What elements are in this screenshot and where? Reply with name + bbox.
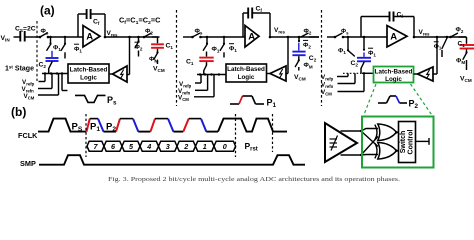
- svg-text:SMP: SMP: [20, 159, 36, 168]
- svg-text:2: 2: [183, 142, 188, 151]
- svg-text:Latch-Based: Latch-Based: [227, 66, 265, 73]
- svg-text:A: A: [248, 32, 255, 43]
- svg-text:Control: Control: [407, 130, 414, 155]
- svg-text:Switch: Switch: [400, 131, 407, 154]
- svg-text:(b): (b): [11, 105, 26, 119]
- svg-text:FCLK: FCLK: [18, 131, 38, 140]
- svg-text:1: 1: [203, 142, 207, 151]
- svg-text:4: 4: [146, 142, 151, 151]
- svg-text:3: 3: [166, 142, 170, 151]
- svg-text:A: A: [86, 32, 93, 43]
- svg-text:Latch-Based: Latch-Based: [375, 68, 413, 75]
- svg-text:Latch-Based: Latch-Based: [70, 66, 108, 73]
- svg-text:(a): (a): [40, 4, 55, 18]
- svg-text:Fig. 3. Proposed 2 bit/cycle m: Fig. 3. Proposed 2 bit/cycle multi-cycle…: [108, 176, 401, 183]
- svg-text:Logic: Logic: [385, 76, 402, 83]
- svg-text:CS=2C: CS=2C: [15, 26, 36, 34]
- svg-text:0: 0: [223, 142, 227, 151]
- svg-text:Logic: Logic: [80, 74, 97, 81]
- svg-text:A: A: [390, 32, 397, 43]
- svg-text:Logic: Logic: [238, 74, 255, 81]
